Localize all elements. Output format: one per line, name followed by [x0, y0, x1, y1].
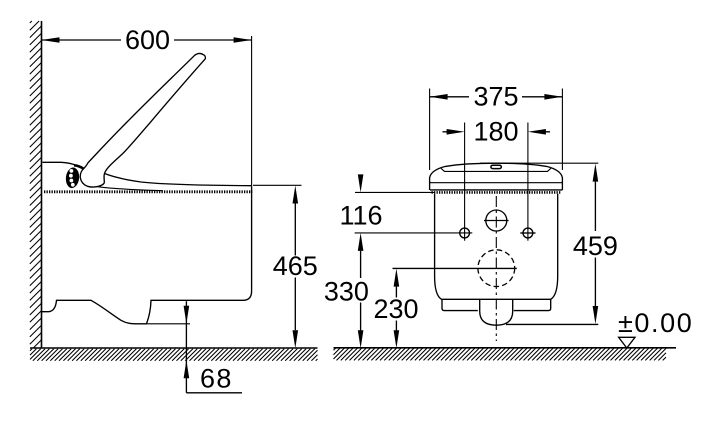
centerline: [495, 196, 497, 341]
svg-text:600: 600: [125, 25, 170, 55]
hinge pod with nozzle dots: [65, 167, 80, 189]
mounting step right: [514, 299, 551, 310]
level mark ±0.00: [618, 308, 693, 348]
dimension 68: [184, 301, 242, 393]
dimension 116: [339, 174, 472, 233]
dimension 600: [42, 25, 252, 55]
svg-text:459: 459: [573, 231, 618, 261]
svg-text:330: 330: [324, 276, 369, 306]
extension line front (600): [251, 36, 253, 186]
svg-text:±0.00: ±0.00: [618, 308, 693, 338]
toilet lid (open) side view: [80, 53, 205, 187]
mounting step left: [442, 299, 478, 310]
back cover block top: [43, 162, 77, 165]
tank bottom textured band: [432, 191, 562, 194]
mounting hole right: [523, 228, 533, 238]
wall: [41, 21, 43, 348]
tank bottom line: [430, 189, 562, 191]
seat rim textured band: [44, 190, 252, 193]
waste outlet hidden circle: [478, 250, 515, 287]
dimension 375: [430, 82, 563, 171]
dimension 230: [373, 268, 516, 348]
dimension 459: [480, 163, 618, 324]
svg-text:465: 465: [273, 251, 318, 281]
tank mid line: [430, 182, 563, 184]
trap bottom extension line: [147, 323, 191, 325]
rim upper curve: [97, 187, 163, 191]
floor left: [30, 347, 318, 349]
bowl body front view: [435, 194, 558, 299]
svg-text:180: 180: [473, 116, 518, 146]
tank top recess line: [441, 168, 551, 171]
dimension 465: [253, 185, 318, 348]
water supply hole: [486, 210, 507, 231]
dimension 330: [324, 233, 369, 348]
tank front view: [430, 163, 563, 190]
hinge shadow: [74, 165, 84, 169]
svg-text:68: 68: [200, 364, 233, 394]
outlet pipe: [480, 300, 513, 326]
toilet body side view outline: [42, 186, 252, 324]
mounting hole left: [460, 228, 470, 238]
svg-text:230: 230: [373, 294, 418, 324]
svg-text:375: 375: [473, 82, 518, 112]
floor right: [334, 347, 677, 349]
seat top profile: [104, 173, 251, 185]
svg-text:116: 116: [339, 200, 382, 230]
tank button: [491, 165, 501, 168]
dimension 180: [443, 116, 551, 240]
